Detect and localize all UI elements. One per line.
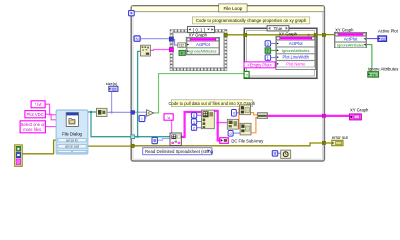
comment label 2 [169, 100, 256, 107]
wire: blue b1 to C [236, 112, 239, 114]
pink tunnel on seq left border [169, 48, 173, 52]
Ignore Attributes indicator [368, 67, 399, 78]
wire: blue b2 to D [233, 132, 240, 134]
constant 0 [265, 41, 277, 47]
Wait (ms) node [281, 150, 291, 158]
svg-text:File Dialog: File Dialog [62, 131, 82, 136]
svg-text:ActPlot: ActPlot [289, 41, 304, 46]
svg-text:IgnoreAttributes: IgnoreAttributes [337, 43, 364, 47]
stacked sequence structure [0..1] [171, 31, 225, 70]
index array small node [152, 138, 157, 144]
error out terminal [332, 135, 349, 146]
svg-text:File Loop: File Loop [223, 6, 242, 11]
comparison triangle [147, 110, 154, 117]
svg-text:Ignore Attributes: Ignore Attributes [368, 67, 399, 72]
wire: Tab delimiter [171, 120, 173, 133]
svg-text:TF: TF [372, 73, 377, 77]
loop corner glyph box [129, 11, 135, 16]
svg-text:XY Graph: XY Graph [189, 33, 208, 38]
Active Plot indicator [378, 29, 399, 42]
wait constant [272, 151, 277, 156]
comment label 1 [192, 17, 309, 24]
string constant "Select one or more files." [20, 121, 45, 133]
property node 1 "XY Graph" [186, 33, 219, 55]
case selector tunnel "?" [244, 71, 249, 77]
svg-text:*.lvt: *.lvt [35, 102, 43, 107]
wire: pink filename string [151, 49, 170, 52]
node A index array expanded [201, 110, 214, 129]
File Dialog express VI [56, 110, 88, 154]
svg-text:I32: I32 [112, 88, 117, 92]
svg-text:T: T [267, 48, 270, 53]
blue tunnel on seq left border [169, 37, 173, 41]
svg-text:size(s): size(s) [106, 81, 118, 86]
wire: string constants to File Dialog [45, 104, 56, 126]
property node 3 "XY Graph" [334, 28, 366, 48]
svg-text:N: N [136, 36, 139, 41]
wire: index node out [157, 139, 170, 141]
property node 2 "XY Graph" [276, 31, 316, 69]
wire: boolean to case selector [154, 74, 245, 113]
svg-text:ActPlot: ActPlot [196, 42, 211, 47]
XY Graph terminal [350, 108, 369, 120]
wire: olive reference run [227, 34, 334, 38]
constant T [265, 48, 277, 54]
svg-text:Plot VDC: Plot VDC [26, 112, 43, 117]
node D [240, 123, 251, 135]
svg-text:Read Delimited Spreadsheet (st: Read Delimited Spreadsheet (string [145, 149, 214, 154]
svg-text:Active Plot: Active Plot [378, 29, 399, 34]
string constant "<Empty Plot>" [244, 62, 275, 68]
svg-text:XY Graph: XY Graph [279, 31, 298, 36]
wire: N count periwinkle [140, 38, 170, 40]
Read Delimited Spreadsheet label [143, 148, 214, 155]
node E build array [257, 113, 267, 119]
svg-text:ActPlot: ActPlot [344, 37, 358, 42]
I32 conversion box [178, 43, 186, 48]
svg-text:error out: error out [332, 135, 349, 140]
Tab constant [164, 114, 173, 120]
blue constant b2 [228, 131, 233, 137]
size(s) indicator [106, 81, 118, 92]
F boolean constant [179, 50, 185, 55]
i iteration box [139, 116, 145, 122]
node B [227, 119, 238, 129]
svg-text:I32: I32 [381, 38, 386, 42]
svg-text:more files.: more files. [23, 127, 42, 132]
svg-text:i: i [142, 117, 143, 122]
case structure "True" [244, 28, 317, 78]
wire: tunnel to triangle [134, 111, 146, 113]
svg-text:Plot.Name: Plot.Name [286, 62, 306, 67]
wire: orange B to C and D [238, 109, 240, 129]
svg-text:Plot.LineWidth: Plot.LineWidth [282, 55, 309, 60]
wire: teal path from File Dialog [88, 51, 171, 137]
wire: i to triangle [145, 114, 147, 118]
wire: prop node 3 outputs [366, 38, 378, 40]
loop border tunnels [322, 33, 325, 36]
Read Delimited Spreadsheet VI icon [170, 133, 181, 145]
olive tunnels on case borders [244, 33, 247, 36]
error cluster constant [15, 145, 23, 166]
svg-text:IgnoreAttributes: IgnoreAttributes [282, 48, 310, 53]
svg-text:?: ? [245, 73, 248, 78]
wire: array size out / to tunnel / size(s) [107, 111, 131, 113]
wire: node E out thick pink to XY Graph terminal [268, 115, 350, 117]
svg-text:Code to programmatically chang: Code to programmatically change properti… [196, 18, 307, 23]
svg-text:error in: error in [66, 138, 77, 142]
wire: node A out thick pink [214, 111, 219, 141]
loop label "File Loop" [219, 4, 247, 12]
wire: inside seq to I32 [172, 40, 178, 46]
constant 1 [265, 55, 277, 61]
wire: File Dialog error out long run [86, 145, 131, 147]
svg-text:<Empty Plot>: <Empty Plot> [247, 63, 272, 68]
string constant "*.lvt" [31, 101, 45, 108]
wire: orange C to E [251, 113, 258, 115]
blue index constants 0 1 2 [191, 113, 196, 131]
strip path node [140, 45, 150, 56]
olive tunnel on seq right border [224, 33, 227, 36]
case selector "True" [267, 26, 289, 32]
svg-text:XY Graph: XY Graph [350, 108, 369, 113]
string constant "Plot VDC" [25, 111, 46, 118]
Array Size node [96, 108, 107, 116]
wire: orange D to E [251, 118, 258, 133]
N terminal box [134, 36, 140, 42]
svg-text:error out: error out [65, 145, 79, 149]
DC File SubArray local variable [220, 138, 265, 144]
wire: wait ms const [278, 152, 281, 154]
node C [240, 105, 251, 115]
wire: 2D string array thick pink [181, 112, 201, 137]
blue constant b1 [232, 110, 237, 117]
sequence selector [0..1] [188, 26, 215, 32]
svg-text:XY Graph: XY Graph [335, 28, 354, 33]
svg-text:DC File SubArray: DC File SubArray [231, 139, 264, 144]
loop label band [132, 6, 324, 11]
svg-text:IgnoreAttributes: IgnoreAttributes [189, 49, 217, 54]
for loop "File Loop" frame [131, 6, 324, 161]
svg-text:I32: I32 [179, 44, 184, 48]
wire: error cluster to File Dialog error in [22, 140, 58, 154]
wire: blue index constants [197, 114, 202, 116]
